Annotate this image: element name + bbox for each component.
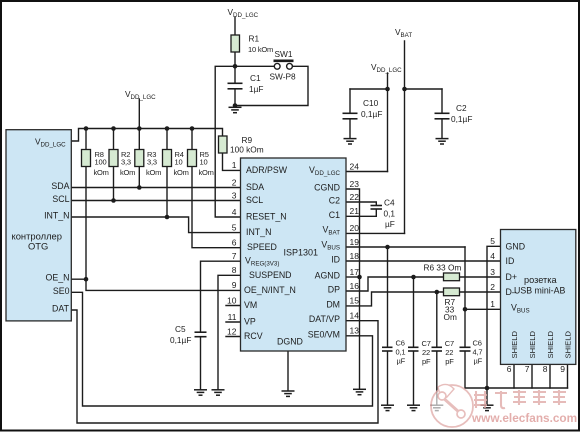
svg-text:1: 1 (490, 299, 495, 309)
svg-text:pF: pF (422, 357, 431, 366)
svg-text:D+: D+ (506, 272, 518, 282)
svg-text:C7: C7 (445, 339, 454, 348)
svg-text:µF: µF (385, 219, 395, 229)
svg-text:SHIELD: SHIELD (510, 331, 519, 359)
svg-text:Om: Om (444, 312, 457, 322)
svg-text:SUSPEND: SUSPEND (249, 270, 292, 280)
svg-text:19: 19 (350, 237, 360, 247)
svg-text:SPEED: SPEED (247, 242, 277, 252)
svg-text:20: 20 (350, 223, 360, 233)
svg-text:22: 22 (422, 348, 430, 357)
svg-text:SHIELD: SHIELD (528, 331, 537, 359)
svg-text:kOm: kOm (94, 168, 109, 177)
svg-text:OTG: OTG (28, 241, 48, 252)
svg-text:INT_N: INT_N (246, 227, 271, 237)
svg-text:3,3: 3,3 (121, 158, 131, 167)
svg-text:3,3: 3,3 (147, 158, 157, 167)
svg-text:4: 4 (490, 251, 495, 261)
svg-text:OE_N/INT_N: OE_N/INT_N (244, 285, 296, 295)
svg-text:SDA: SDA (246, 182, 264, 192)
svg-text:VM: VM (244, 300, 257, 310)
svg-text:kOm: kOm (120, 168, 135, 177)
svg-text:21: 21 (350, 206, 360, 216)
svg-text:16: 16 (350, 281, 360, 291)
svg-text:12: 12 (227, 326, 237, 336)
svg-text:SHIELD: SHIELD (546, 331, 555, 359)
svg-text:8: 8 (232, 265, 237, 275)
svg-text:VP: VP (244, 317, 256, 327)
svg-text:kOm: kOm (199, 168, 214, 177)
svg-text:2: 2 (232, 177, 237, 187)
svg-text:10: 10 (227, 295, 237, 305)
svg-text:µF: µF (474, 357, 483, 366)
svg-text:DP: DP (328, 285, 340, 295)
svg-text:17: 17 (350, 267, 360, 277)
svg-text:kOm: kOm (146, 168, 161, 177)
svg-text:SHIELD: SHIELD (564, 331, 573, 359)
svg-text:AGND: AGND (315, 271, 340, 281)
svg-text:100: 100 (95, 158, 107, 167)
svg-text:C1: C1 (329, 210, 340, 220)
svg-text:13: 13 (350, 326, 360, 336)
svg-text:SE0/VM: SE0/VM (308, 329, 340, 339)
svg-text:DAT/VP: DAT/VP (309, 314, 340, 324)
svg-text:R6 33 Om: R6 33 Om (424, 263, 462, 273)
svg-text:22: 22 (350, 192, 360, 202)
svg-text:1µF: 1µF (249, 84, 263, 94)
svg-text:14: 14 (350, 311, 360, 321)
svg-text:5: 5 (232, 222, 237, 232)
svg-text:SDA: SDA (51, 181, 69, 191)
svg-text:22: 22 (445, 348, 453, 357)
svg-text:DAT: DAT (52, 304, 70, 314)
svg-text:7: 7 (525, 364, 530, 374)
svg-text:6: 6 (507, 364, 512, 374)
svg-text:C7: C7 (422, 339, 431, 348)
svg-text:RCV: RCV (244, 331, 263, 341)
svg-text:www.elecfans.com: www.elecfans.com (471, 411, 577, 425)
svg-text:18: 18 (350, 251, 360, 261)
svg-text:0,1µF: 0,1µF (451, 114, 472, 124)
svg-text:pF: pF (445, 357, 454, 366)
svg-text:R1: R1 (249, 34, 260, 44)
svg-text:C2: C2 (456, 103, 467, 113)
svg-text:8: 8 (543, 364, 548, 374)
svg-text:1: 1 (232, 160, 237, 170)
svg-text:ADR/PSW: ADR/PSW (246, 165, 288, 175)
svg-text:ISP1301: ISP1301 (284, 247, 319, 257)
svg-text:µF: µF (397, 357, 406, 366)
svg-text:VDD_LGC: VDD_LGC (228, 7, 259, 19)
svg-text:C6: C6 (396, 338, 405, 347)
svg-text:0,1µF: 0,1µF (170, 335, 191, 345)
svg-text:SW-P8: SW-P8 (270, 72, 297, 82)
svg-text:4: 4 (232, 207, 237, 217)
svg-text:C5: C5 (175, 324, 186, 334)
svg-text:C10: C10 (363, 98, 379, 108)
svg-text:5: 5 (490, 236, 495, 246)
svg-text:3: 3 (490, 267, 495, 277)
svg-text:SCL: SCL (246, 195, 263, 205)
svg-text:C1: C1 (250, 73, 261, 83)
svg-text:DM: DM (326, 299, 340, 309)
svg-text:RESET_N: RESET_N (246, 212, 287, 222)
svg-text:SCL: SCL (52, 194, 69, 204)
svg-text:15: 15 (350, 296, 360, 306)
svg-text:SE0: SE0 (53, 286, 70, 296)
svg-text:3: 3 (232, 190, 237, 200)
svg-text:USB mini-AB: USB mini-AB (514, 286, 565, 296)
svg-text:ID: ID (331, 255, 340, 265)
svg-text:4,7: 4,7 (473, 348, 483, 357)
svg-text:розетка: розетка (524, 275, 557, 285)
svg-text:ID: ID (506, 256, 515, 266)
svg-text:0,1µF: 0,1µF (361, 109, 382, 119)
svg-text:C2: C2 (329, 196, 340, 206)
svg-text:INT_N: INT_N (44, 211, 69, 221)
svg-text:9: 9 (560, 364, 565, 374)
svg-text:CGND: CGND (314, 183, 340, 193)
svg-text:OE_N: OE_N (46, 273, 70, 283)
svg-text:2: 2 (490, 282, 495, 292)
svg-text:7: 7 (232, 251, 237, 261)
svg-text:100 kOm: 100 kOm (230, 145, 264, 155)
svg-text:0,1: 0,1 (384, 209, 396, 219)
svg-text:kOm: kOm (174, 168, 189, 177)
svg-text:SW1: SW1 (275, 49, 293, 59)
svg-text:C4: C4 (384, 198, 395, 208)
svg-text:24: 24 (350, 161, 360, 171)
svg-text:11: 11 (228, 312, 237, 322)
svg-text:10: 10 (200, 158, 208, 167)
svg-text:23: 23 (350, 179, 360, 189)
svg-text:R9: R9 (242, 135, 253, 145)
svg-text:0,1: 0,1 (396, 348, 406, 357)
svg-text:6: 6 (232, 238, 237, 248)
svg-text:C6: C6 (473, 338, 482, 347)
svg-text:VDD_LGC: VDD_LGC (125, 89, 156, 101)
svg-text:GND: GND (506, 241, 526, 251)
svg-text:10: 10 (175, 158, 183, 167)
svg-text:VDD_LGC: VDD_LGC (371, 62, 402, 74)
svg-text:VBAT: VBAT (395, 27, 412, 39)
svg-text:DGND: DGND (277, 337, 303, 347)
svg-text:9: 9 (232, 280, 237, 290)
svg-text:10 kOm: 10 kOm (248, 45, 273, 54)
